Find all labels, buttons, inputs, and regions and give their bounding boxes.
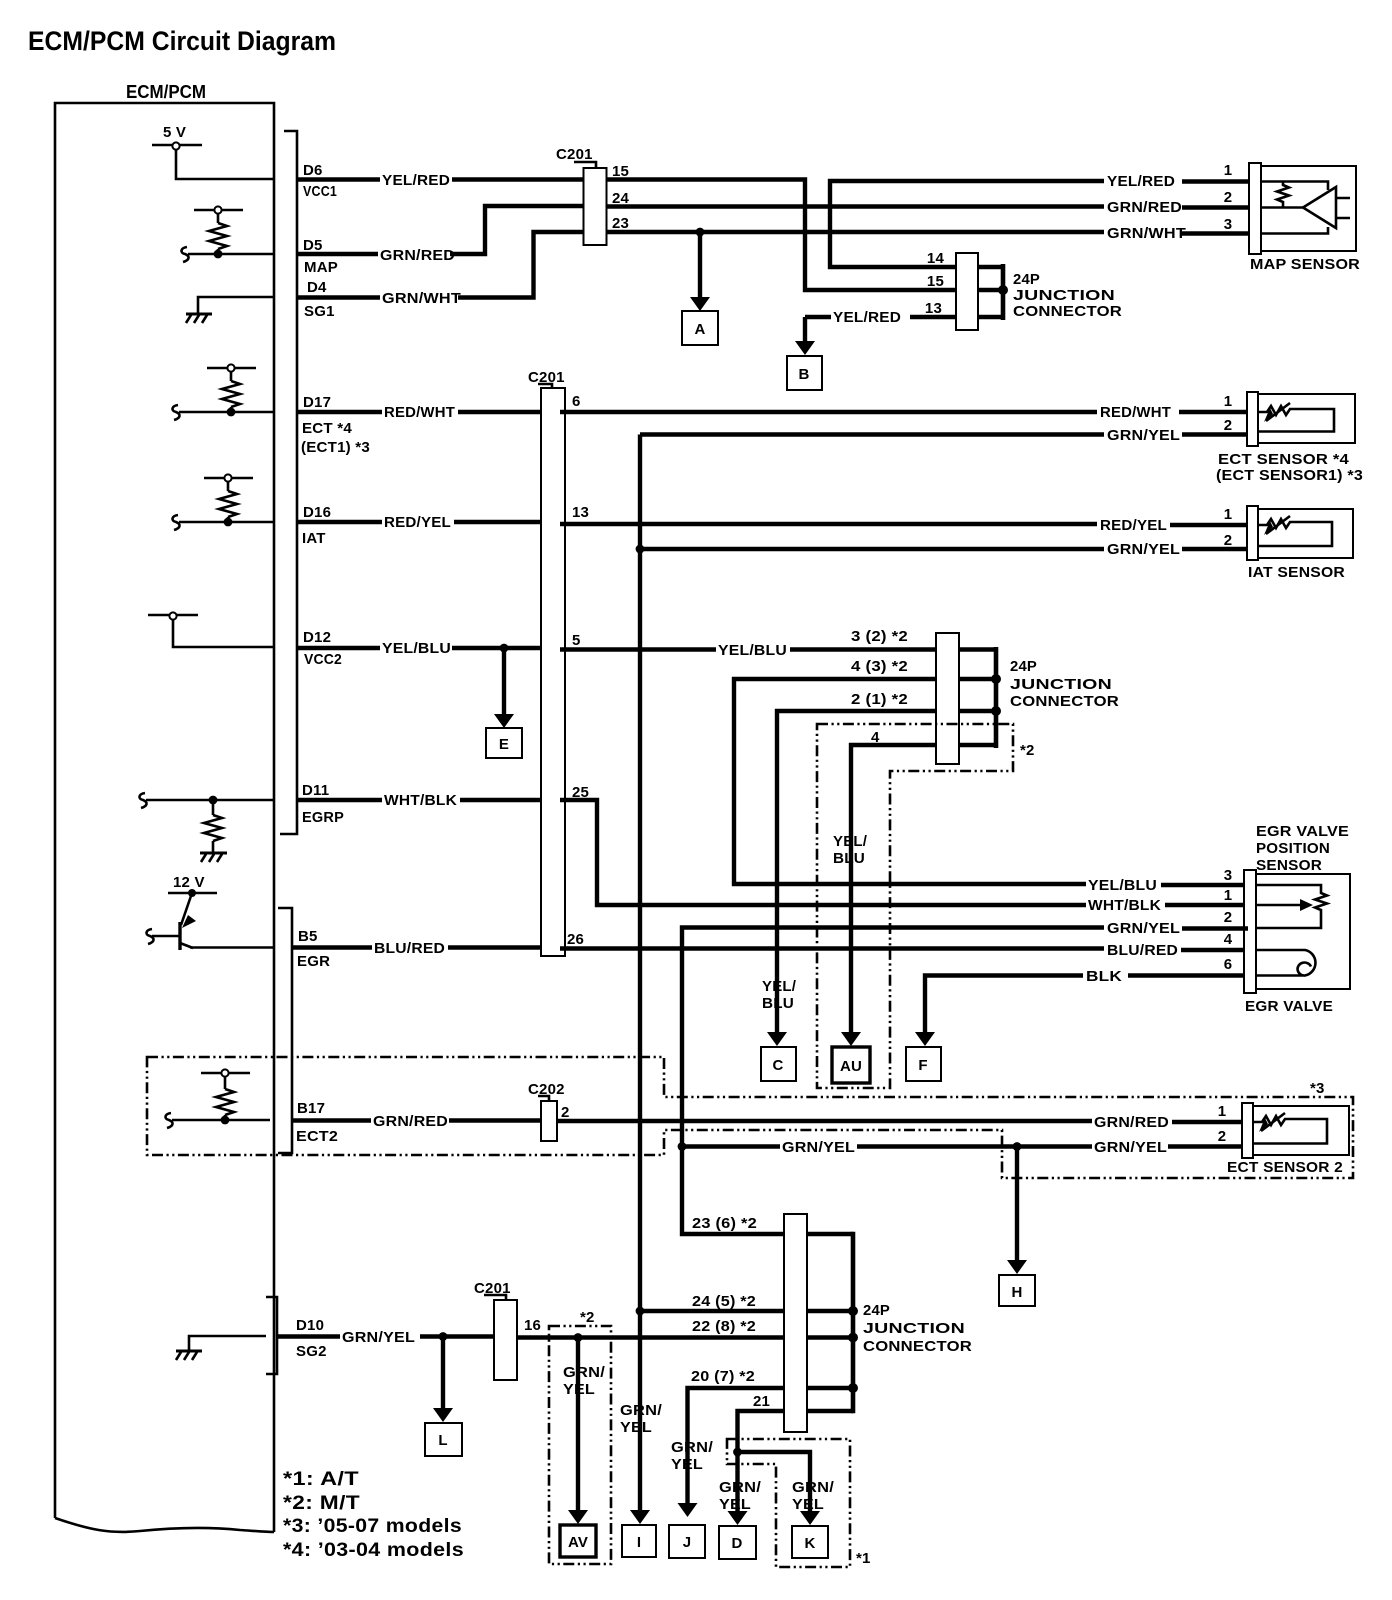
junction dot node A: [696, 228, 705, 237]
svg-text:A: A: [694, 321, 705, 338]
svg-text:13: 13: [925, 300, 942, 317]
arrowhead L: [433, 1408, 453, 1422]
connector C201 middle label leader: [538, 384, 552, 388]
IAT sensor connector tab: [1247, 506, 1258, 560]
label EGR VALVE POSITION SENSOR: [1256, 823, 1349, 874]
svg-text:H: H: [1011, 1284, 1022, 1301]
junction dot resistor-D17: [227, 408, 236, 417]
svg-text:13: 13: [572, 504, 589, 521]
junction dot L: [439, 1332, 448, 1341]
wire WHT/BLK into EGR pin1: [1165, 903, 1248, 907]
arrowhead I: [630, 1510, 650, 1524]
junction 3 bus bar: [851, 1232, 856, 1414]
wire VCC2 to D12: [173, 619, 274, 647]
svg-text:VCC2: VCC2: [304, 651, 342, 668]
EGR position sensor wiper arrow: [1256, 899, 1313, 911]
svg-text:3 (2) *2: 3 (2) *2: [851, 628, 908, 645]
resistor pull-up at D5: [194, 206, 243, 254]
IAT sensor thermistor: [1258, 516, 1332, 546]
connector pin bracket D10: [266, 1297, 277, 1374]
wire GRN/RED to C202: [449, 1118, 543, 1122]
12V supply bar: [168, 892, 217, 895]
wire 2 GRN/RED right: [557, 1119, 1092, 1123]
svg-text:CONNECTOR: CONNECTOR: [1010, 693, 1119, 710]
label GRN/YEL I two-line: [620, 1402, 663, 1436]
wire D5 GRN/RED jog up to C201 pin 24: [450, 206, 583, 254]
svg-text:6: 6: [1224, 956, 1233, 973]
wire 15 YEL/RED to junction: [607, 180, 956, 291]
svg-text:C: C: [772, 1057, 783, 1074]
svg-text:D10: D10: [296, 1317, 324, 1334]
24P junction connector 3 body: [784, 1214, 807, 1432]
resistor pull-up at D17: [207, 364, 256, 412]
wire GRN/YEL ECT to vertical: [640, 432, 1104, 436]
wire GRN/YEL to C201 bottom: [420, 1334, 496, 1338]
svg-text:2: 2: [1224, 532, 1233, 549]
svg-text:*3: *3: [1310, 1080, 1325, 1097]
junction dot D11 resistor: [209, 796, 218, 805]
wire 2(1) YEL/BLU to C arrow: [777, 711, 936, 1033]
wire arrow to L: [441, 1337, 445, 1410]
svg-text:MAP SENSOR: MAP SENSOR: [1250, 256, 1360, 273]
resistor D11 to ground: [200, 800, 227, 862]
terminal box I: [622, 1525, 656, 1557]
svg-text:5: 5: [572, 632, 581, 649]
svg-text:5 V: 5 V: [163, 124, 186, 141]
connector pin bracket D6-D11: [280, 131, 297, 834]
junction 1 prong 15: [978, 288, 1003, 293]
svg-text:WHT/BLK: WHT/BLK: [384, 792, 457, 809]
label YEL/BLU C two-line: [762, 978, 797, 1012]
wire 23 GRN/WHT: [607, 230, 1104, 234]
5V supply node circle: [172, 142, 179, 149]
svg-text:CONNECTOR: CONNECTOR: [1013, 303, 1122, 320]
svg-text:D17: D17: [303, 394, 331, 411]
vertical wire GRN/YEL net to I: [638, 435, 642, 1513]
junction dot 24(5): [636, 1307, 645, 1316]
MAP sensor output stubs: [1336, 198, 1350, 218]
wire 6 RED/WHT right: [560, 410, 1097, 414]
terminal box AU: [832, 1047, 870, 1083]
svg-text:2: 2: [1218, 1128, 1227, 1145]
svg-text:22 (8) *2: 22 (8) *2: [692, 1318, 756, 1335]
ground SG1: [186, 297, 274, 323]
label GRN/YEL J two-line: [671, 1439, 714, 1473]
svg-text:24P: 24P: [1013, 271, 1040, 288]
svg-text:GRN/YEL: GRN/YEL: [1107, 427, 1180, 444]
wire YEL/BLU to C201: [452, 646, 540, 650]
svg-text:26: 26: [567, 931, 584, 948]
svg-text:D6: D6: [303, 162, 323, 179]
svg-text:GRN/YEL: GRN/YEL: [1107, 920, 1180, 937]
IAT sensor box: [1258, 509, 1353, 558]
svg-text:24P: 24P: [1010, 658, 1037, 675]
label GRN/YEL D two-line: [719, 1479, 762, 1513]
junction dot resistor-D5: [214, 250, 223, 259]
svg-text:YEL: YEL: [792, 1496, 824, 1513]
svg-text:23 (6) *2: 23 (6) *2: [692, 1215, 757, 1232]
svg-text:B5: B5: [298, 928, 318, 945]
wire WHT/BLK to C201: [460, 798, 540, 802]
arrowhead AU: [841, 1032, 861, 1046]
svg-text:EGR VALVE: EGR VALVE: [1256, 823, 1349, 840]
wire RED/YEL into IAT pin1: [1170, 523, 1249, 527]
svg-text:GRN/WHT: GRN/WHT: [1107, 225, 1186, 242]
MAP sensor connector tab: [1249, 163, 1261, 254]
svg-text:RED/WHT: RED/WHT: [384, 404, 455, 421]
5V supply bar: [152, 144, 202, 147]
junction dot resistor-B17: [221, 1116, 230, 1125]
junction 2 prong 4(3): [959, 677, 996, 682]
svg-text:(ECT1) *3: (ECT1) *3: [301, 439, 370, 456]
wire GRN/YEL net vertical: [682, 928, 1104, 1235]
wire YEL/RED into MAP pin1: [1182, 179, 1251, 183]
svg-text:E: E: [499, 736, 509, 753]
wire 24(5) to junction 3: [640, 1309, 784, 1313]
junction dot GRN/YEL IAT: [636, 545, 645, 554]
arrowhead E: [494, 714, 514, 728]
terminal box AV: [560, 1525, 596, 1557]
svg-text:BLU/RED: BLU/RED: [1107, 942, 1178, 959]
svg-text:16: 16: [524, 1317, 541, 1334]
wire YEL/RED junction14 to MAP pin1: [830, 181, 1104, 267]
junction 2 prong 3(2): [959, 647, 996, 652]
dashed box *1 (A/T): [727, 1439, 850, 1567]
connector C202: [541, 1101, 557, 1141]
svg-text:IAT SENSOR: IAT SENSOR: [1248, 564, 1345, 581]
connector C201 label leader: [574, 162, 596, 168]
svg-text:14: 14: [927, 250, 945, 267]
label 24P junction 1: [1013, 271, 1122, 320]
wire 21 to D and K: [738, 1411, 811, 1512]
svg-text:AU: AU: [840, 1058, 862, 1075]
svg-text:JUNCTION: JUNCTION: [863, 1320, 965, 1337]
svg-text:GRN/YEL: GRN/YEL: [1107, 541, 1180, 558]
svg-text:24 (5) *2: 24 (5) *2: [692, 1293, 756, 1310]
svg-text:D16: D16: [303, 504, 331, 521]
wire 13 YEL/RED stub: [805, 315, 831, 319]
ECT sensor box: [1258, 394, 1355, 443]
dashed box *2 (M/T): [817, 724, 1013, 1088]
24P junction connector 1 body: [956, 253, 978, 330]
ECM/PCM box outline: [55, 103, 274, 1532]
junction 2 dot 4(3): [991, 674, 1001, 684]
EGR valve box: [1256, 874, 1350, 989]
wire break squiggle D11: [139, 793, 146, 808]
svg-text:JUNCTION: JUNCTION: [1013, 287, 1115, 304]
EGR valve connector tab: [1244, 870, 1256, 993]
junction 3 prong 20(7): [807, 1386, 853, 1391]
ECT sensor thermistor: [1258, 403, 1334, 432]
VCC2 supply bar: [148, 614, 198, 617]
wire GRN/RED into ECT2 pin1: [1172, 1120, 1244, 1124]
wire GRN/YEL net to ECT2: [857, 1144, 1092, 1148]
arrowhead B: [795, 341, 815, 355]
svg-text:20 (7) *2: 20 (7) *2: [691, 1368, 755, 1385]
wire 5 YEL/BLU right: [560, 647, 716, 651]
svg-text:3: 3: [1224, 216, 1233, 233]
wire GRN/RED to MAP pin2: [1182, 205, 1251, 209]
svg-text:D: D: [731, 1535, 742, 1552]
svg-text:2: 2: [1224, 189, 1233, 206]
arrowhead K: [800, 1511, 820, 1525]
svg-text:L: L: [438, 1432, 447, 1449]
terminal box K: [792, 1526, 828, 1558]
svg-text:F: F: [918, 1057, 927, 1074]
resistor pull-up at B17: [201, 1069, 250, 1120]
svg-text:GRN/RED: GRN/RED: [1094, 1114, 1169, 1131]
junction dot H: [1013, 1142, 1022, 1151]
wire break squiggle D16: [172, 515, 179, 530]
svg-text:YEL/: YEL/: [762, 978, 797, 995]
wire 13 RED/YEL right: [560, 522, 1097, 526]
label 24P junction 3: [863, 1302, 972, 1355]
svg-text:RED/YEL: RED/YEL: [1100, 517, 1167, 534]
svg-text:YEL: YEL: [719, 1496, 751, 1513]
svg-text:VCC1: VCC1: [303, 183, 337, 200]
svg-text:GRN/RED: GRN/RED: [1107, 199, 1182, 216]
wire GRN/YEL IAT pin2: [1182, 547, 1249, 551]
transistor Q (EGR driver): [152, 893, 193, 950]
junction 2 bus bar: [994, 647, 999, 748]
connector C202 label leader: [538, 1096, 549, 1101]
junction 1 prong 13: [978, 315, 1003, 320]
wire YEL/BLU into EGR pin3: [1161, 883, 1248, 887]
svg-text:YEL/BLU: YEL/BLU: [382, 640, 451, 657]
wire GRN/YEL into ECT2 pin2: [1168, 1144, 1244, 1148]
svg-text:D5: D5: [303, 237, 323, 254]
svg-text:*1: A/T: *1: A/T: [283, 1469, 359, 1490]
svg-text:EGR VALVE: EGR VALVE: [1245, 998, 1333, 1015]
svg-text:BLU/RED: BLU/RED: [374, 940, 445, 957]
ECT sensor connector tab: [1247, 392, 1258, 446]
wire 4(3) YEL/BLU to EGR pin3: [734, 679, 1086, 884]
junction dot AV: [574, 1333, 583, 1342]
junction 2 prong 4: [959, 743, 996, 748]
connector C201 (bottom): [494, 1300, 517, 1380]
wire 5V to D6: [176, 149, 274, 179]
svg-text:*2: *2: [1020, 742, 1035, 759]
svg-text:6: 6: [572, 393, 581, 410]
svg-text:SG1: SG1: [304, 303, 335, 320]
wire D11 WHT/BLK left: [297, 798, 382, 802]
junction 1 prong 14: [978, 265, 1003, 270]
wire GRN/YEL EGR pin2 to net: [1182, 926, 1248, 930]
svg-text:GRN/: GRN/: [792, 1479, 835, 1496]
wire YEL/BLU to junction 2: [790, 647, 936, 651]
junction 3 prong 23(6): [807, 1232, 853, 1237]
resistor pull-up at D16: [204, 474, 253, 522]
terminal box H: [999, 1275, 1035, 1306]
svg-text:J: J: [683, 1534, 692, 1551]
svg-text:IAT: IAT: [302, 530, 326, 547]
wire 4 YEL/BLU to AU arrow: [851, 745, 936, 1033]
svg-text:1: 1: [1224, 393, 1233, 410]
wire 26 BLU/RED right: [560, 946, 1104, 950]
wire RED/WHT into ECT pin1: [1179, 410, 1249, 414]
svg-text:D11: D11: [302, 782, 329, 799]
svg-text:YEL: YEL: [620, 1419, 652, 1436]
label GRN/YEL K two-line: [792, 1479, 835, 1513]
arrowhead AV: [568, 1510, 588, 1524]
svg-text:JUNCTION: JUNCTION: [1010, 676, 1112, 693]
dashed box *2 around AV: [549, 1326, 611, 1564]
svg-text:RED/WHT: RED/WHT: [1100, 404, 1171, 421]
svg-text:GRN/: GRN/: [620, 1402, 663, 1419]
svg-text:YEL/: YEL/: [833, 833, 868, 850]
connector pin bracket B5-B17: [278, 908, 292, 1153]
svg-text:*1: *1: [856, 1550, 871, 1567]
wire arrow to H: [1015, 1147, 1019, 1262]
svg-text:BLK: BLK: [1086, 968, 1122, 985]
svg-text:YEL: YEL: [563, 1381, 595, 1398]
svg-text:ECT SENSOR 2: ECT SENSOR 2: [1227, 1159, 1343, 1176]
junction 1 dot: [998, 285, 1008, 295]
terminal box A: [682, 311, 718, 345]
wire D4 GRN/WHT left: [297, 295, 380, 299]
junction 3 prong 24(5): [807, 1309, 853, 1314]
wire arrow to AV: [576, 1338, 580, 1512]
svg-text:D4: D4: [307, 279, 327, 296]
svg-text:BLU: BLU: [833, 850, 865, 867]
svg-text:POSITION: POSITION: [1256, 840, 1330, 857]
junction 3 prong 21: [807, 1409, 853, 1414]
svg-text:GRN/RED: GRN/RED: [373, 1113, 448, 1130]
svg-text:1: 1: [1224, 887, 1233, 904]
terminal box D: [719, 1526, 756, 1559]
wire arrow to E: [502, 648, 506, 715]
svg-text:15: 15: [927, 273, 944, 290]
svg-text:YEL/BLU: YEL/BLU: [1088, 877, 1157, 894]
svg-text:YEL: YEL: [671, 1456, 703, 1473]
wire BLK from EGR pin6 to F: [1128, 973, 1248, 977]
24P junction connector 2 body: [936, 633, 959, 764]
wire RED/WHT to C201: [458, 410, 540, 414]
svg-text:3: 3: [1224, 867, 1233, 884]
wire break squiggle D5: [181, 247, 188, 262]
svg-text:*2: M/T: *2: M/T: [283, 1493, 360, 1514]
wire GRN/YEL ECT pin2: [1182, 432, 1249, 436]
wire D12 YEL/BLU left: [297, 646, 380, 650]
ECT sensor 2 connector tab: [1242, 1103, 1253, 1158]
arrowhead F: [915, 1032, 935, 1046]
svg-text:SG2: SG2: [296, 1343, 327, 1360]
svg-text:BLU: BLU: [762, 995, 794, 1012]
ECM/PCM box torn bottom edge: [55, 1518, 274, 1532]
ECT sensor 2 box: [1253, 1106, 1349, 1155]
wire 20(7) to J: [688, 1388, 785, 1504]
wire D11 internal: [146, 799, 274, 802]
svg-text:GRN/WHT: GRN/WHT: [382, 290, 461, 307]
wire D16 internal: [179, 521, 274, 524]
svg-text:2 (1) *2: 2 (1) *2: [851, 691, 908, 708]
connector C201 (top): [584, 168, 607, 245]
12V node dot: [188, 889, 196, 897]
terminal box J: [669, 1525, 705, 1558]
svg-text:4 (3) *2: 4 (3) *2: [851, 658, 908, 675]
MAP sensor internal rails: [1261, 182, 1328, 234]
EGR valve solenoid loop: [1256, 950, 1315, 976]
wire BLK to F arrow: [925, 976, 1083, 1034]
wire BLU/RED to C201: [448, 945, 540, 949]
junction dot E: [500, 644, 509, 653]
svg-text:12 V: 12 V: [173, 874, 205, 891]
svg-text:2: 2: [1224, 417, 1233, 434]
svg-text:GRN/YEL: GRN/YEL: [1094, 1139, 1167, 1156]
junction 3 dot 24(5): [848, 1306, 858, 1316]
svg-text:ECT SENSOR *4: ECT SENSOR *4: [1218, 451, 1349, 468]
wire GRN/WHT to MAP pin3: [1182, 231, 1251, 235]
svg-text:YEL/RED: YEL/RED: [833, 309, 901, 326]
svg-text:2: 2: [561, 1104, 570, 1121]
svg-text:24P: 24P: [863, 1302, 890, 1319]
wire B17 GRN/RED left: [292, 1118, 371, 1122]
wire RED/YEL to C201: [454, 520, 540, 524]
VCC2 supply node circle: [169, 612, 176, 619]
wire 24 GRN/RED: [607, 204, 1104, 208]
svg-text:YEL/RED: YEL/RED: [1107, 173, 1175, 190]
svg-text:ECM/PCM: ECM/PCM: [126, 82, 206, 102]
junction 3 prong 22(8): [807, 1335, 853, 1340]
wire break squiggle B17: [165, 1113, 172, 1128]
arrowhead C: [767, 1032, 787, 1046]
wire GRN/YEL net stub: [682, 1144, 780, 1148]
wire B5 BLU/RED left: [292, 945, 372, 949]
wire elbow to B: [803, 317, 807, 342]
wire 16 GRN/YEL to junction 3: [517, 1335, 784, 1339]
svg-text:1: 1: [1218, 1103, 1227, 1120]
terminal box E: [486, 728, 522, 758]
svg-text:AV: AV: [568, 1534, 588, 1551]
wire D10 GRN/YEL left: [277, 1334, 340, 1338]
svg-text:EGR: EGR: [297, 953, 330, 970]
terminal box L: [425, 1423, 462, 1456]
svg-text:MAP: MAP: [304, 259, 338, 276]
connector C201 bottom label leader: [484, 1295, 506, 1300]
ground SG2: [176, 1336, 266, 1360]
svg-text:4: 4: [1224, 931, 1233, 948]
MAP sensor amplifier triangle: [1303, 187, 1336, 228]
wire D16 RED/YEL left: [297, 520, 382, 524]
svg-text:B: B: [798, 366, 809, 383]
wire B5 internal: [190, 946, 274, 949]
arrowhead D: [728, 1511, 748, 1525]
svg-text:B17: B17: [297, 1100, 325, 1117]
svg-text:*3: ’05-07 models: *3: ’05-07 models: [283, 1516, 462, 1537]
label GRN/YEL AV two-line: [563, 1364, 606, 1398]
svg-text:EGRP: EGRP: [302, 809, 344, 826]
junction 2 prong 2(1): [959, 709, 996, 714]
wire 13 into junction: [910, 315, 956, 319]
svg-text:GRN/: GRN/: [719, 1479, 762, 1496]
svg-text:RED/YEL: RED/YEL: [384, 514, 451, 531]
wire D5 GRN/RED left: [297, 252, 378, 256]
svg-text:K: K: [804, 1535, 815, 1552]
svg-text:1: 1: [1224, 162, 1233, 179]
svg-text:2: 2: [1224, 909, 1233, 926]
svg-text:1: 1: [1224, 506, 1233, 523]
wire D17 RED/WHT left: [297, 410, 382, 414]
junction 1 bus bar: [1001, 264, 1006, 320]
arrowhead H: [1007, 1260, 1027, 1274]
junction dot 21 branch: [733, 1448, 742, 1457]
svg-text:GRN/YEL: GRN/YEL: [342, 1329, 415, 1346]
svg-text:*4: ’03-04 models: *4: ’03-04 models: [283, 1540, 464, 1561]
junction 3 dot 20(7): [848, 1383, 858, 1393]
junction dot resistor-D16: [224, 518, 233, 527]
MAP sensor internal resistor: [1277, 182, 1289, 208]
arrowhead A: [690, 297, 710, 311]
